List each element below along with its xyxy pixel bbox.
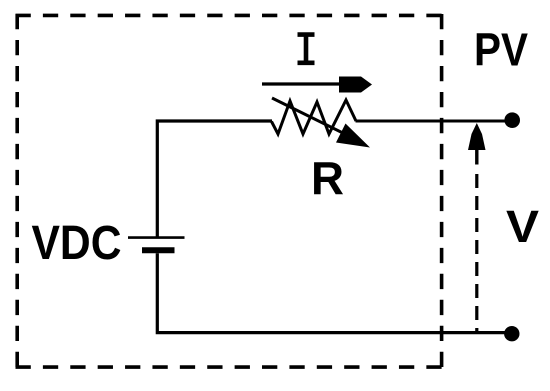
current arrow I shaft — [262, 82, 342, 85]
wire: resistor R to PV positive terminal — [356, 120, 512, 123]
current arrow I head — [339, 77, 372, 93]
wire: battery positive up and right to resistor R — [157, 121, 272, 237]
resistor R (variable) zigzag body — [272, 100, 357, 134]
dashed boundary box left edge — [15, 14, 19, 367]
dashed boundary box right edge — [440, 14, 444, 367]
voltmeter arrowhead pointing up to positive wire — [468, 123, 486, 150]
label I (current) drawn with serif crossbars — [298, 35, 315, 63]
node: PV positive terminal dot — [504, 112, 520, 128]
svg-text:VDC: VDC — [32, 217, 122, 270]
voltmeter dashed sense line V — [475, 174, 478, 331]
battery VDC positive plate (long thin) — [128, 236, 185, 239]
svg-text:PV: PV — [474, 24, 528, 76]
dashed boundary box (PV module outline) top edge — [16, 14, 442, 18]
svg-text:R: R — [311, 152, 344, 204]
wire: battery negative down and right to PV negative terminal — [157, 253, 511, 332]
battery VDC negative plate (short thick) — [142, 247, 175, 253]
dashed boundary box bottom edge — [16, 365, 442, 369]
svg-text:V: V — [506, 201, 539, 252]
wiper arrowhead of resistor R — [336, 124, 370, 148]
wiper arrow shaft through resistor R — [272, 98, 350, 137]
node: PV negative terminal dot — [504, 326, 519, 341]
voltmeter arrow stem — [475, 148, 478, 165]
